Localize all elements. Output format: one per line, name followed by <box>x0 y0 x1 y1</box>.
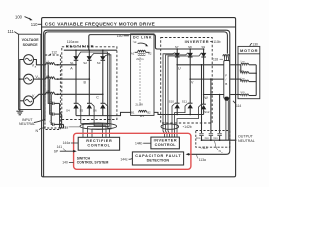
wire neutral ref top wrap W2 to feedback block <box>45 32 228 122</box>
label 113 <box>200 146 207 150</box>
svg-text:S11: S11 <box>182 99 187 103</box>
wire cap drop U to Cm1 <box>201 64 203 133</box>
label INPUT NEUTRAL <box>19 118 45 126</box>
gate wire S11 <box>175 104 188 138</box>
svg-text:RECTIFIER: RECTIFIER <box>66 44 94 49</box>
motor winding Lm2 <box>240 65 257 74</box>
feedback block F/B <box>224 61 230 99</box>
wire phase V inverter to feedback block <box>190 78 224 80</box>
svg-text:118: 118 <box>213 57 218 61</box>
svg-text:S12: S12 <box>204 110 210 114</box>
arrowhead into capacitor fault detection <box>186 153 190 156</box>
capacitor Cm2 <box>205 134 214 140</box>
wire cap drop V to Cm2 <box>210 78 212 133</box>
svg-text:113a: 113a <box>199 158 206 162</box>
label 140 <box>62 161 73 165</box>
thyristor S9 <box>201 45 206 95</box>
label 144c <box>120 157 132 161</box>
svg-text:S7: S7 <box>175 45 179 49</box>
label MOTOR <box>238 48 260 54</box>
svg-text:U: U <box>178 66 181 70</box>
svg-text:Lm: Lm <box>241 59 246 63</box>
motor star bus <box>255 65 257 96</box>
wire source-b right lead row b <box>34 78 46 80</box>
svg-text:SOURCE: SOURCE <box>23 43 39 47</box>
svg-text:INVERTER: INVERTER <box>154 139 177 143</box>
thyristor S8 <box>188 45 193 79</box>
svg-text:CONTROL: CONTROL <box>87 143 110 147</box>
ground input neutral <box>16 107 23 115</box>
node N neutral dashed bus <box>44 127 66 129</box>
node W <box>203 94 209 100</box>
inductor above feedback block <box>223 55 230 57</box>
setpoint input arrow SP <box>54 150 77 154</box>
wire Cf2 return drop <box>61 114 63 128</box>
outer enclosure CSC drive box 110 <box>42 18 236 177</box>
thyristor S6 <box>93 94 106 115</box>
junction dot row b <box>57 78 59 80</box>
thyristor S5 <box>80 79 93 116</box>
gate wire S4 <box>78 104 102 138</box>
svg-text:110b: 110b <box>213 40 220 44</box>
rectifier dashed box 110a <box>62 47 117 120</box>
title separator line <box>42 26 236 28</box>
svg-text:CONTROL SYSTEM: CONTROL SYSTEM <box>77 161 109 165</box>
voltage source box 111 <box>19 34 41 109</box>
inductor Lf phase a <box>46 60 55 65</box>
svg-text:110: 110 <box>31 22 38 27</box>
thyristor S4 <box>66 65 79 116</box>
AC source Vc <box>24 96 34 106</box>
output neutral bus wire <box>201 139 237 141</box>
gate wire S2 <box>88 53 110 137</box>
svg-text:DETECTION: DETECTION <box>147 159 170 163</box>
svg-text:130: 130 <box>252 43 258 47</box>
AC source Va <box>24 55 34 65</box>
wire neutral sense top wrap W1 to fault detector <box>44 30 230 177</box>
capacitor Cf3 <box>49 120 63 126</box>
svg-text:OUTPUT: OUTPUT <box>238 134 254 138</box>
gate wire S6 <box>105 104 110 138</box>
svg-text:INVERTER: INVERTER <box>185 39 209 44</box>
thyristor S12 <box>201 95 210 115</box>
feedback block bottom connector <box>225 97 229 101</box>
wire phase U feedback to motor <box>230 64 241 66</box>
svg-text:140: 140 <box>62 161 68 165</box>
motor winding Lm4 <box>241 90 257 96</box>
svg-text:MOTOR: MOTOR <box>240 48 258 53</box>
svg-text:2Ldiff: 2Ldiff <box>135 102 142 106</box>
svg-text:RECTIFIER: RECTIFIER <box>86 139 112 143</box>
wire row a to rectifier node A <box>55 64 76 66</box>
svg-text:111: 111 <box>8 29 15 34</box>
capacitor Cm1 <box>196 134 204 140</box>
svg-text:B2: B2 <box>147 110 151 114</box>
label idc with arrow <box>133 39 149 46</box>
label 111 <box>8 29 19 34</box>
svg-text:W3: W3 <box>140 114 145 118</box>
output capacitor dashed box 113 <box>196 131 230 148</box>
svg-text:VOLTAGE: VOLTAGE <box>22 38 40 42</box>
gate bundle ellipse 142a <box>80 123 117 129</box>
label 114 <box>233 101 241 108</box>
wire source-b left lead <box>20 78 24 80</box>
svg-text:S2: S2 <box>83 61 87 65</box>
svg-text:S4: S4 <box>66 108 70 112</box>
label 144b <box>135 141 151 145</box>
svg-text:Lm: Lm <box>241 90 246 94</box>
label 150 <box>117 34 129 38</box>
label 144a <box>63 141 79 145</box>
svg-text:144b: 144b <box>135 141 143 145</box>
thyristor S2 <box>83 50 92 79</box>
thyristor S1 <box>70 50 79 65</box>
gate wire S9 <box>168 53 202 137</box>
wire Cf1 return drop <box>59 103 61 128</box>
motor box 130 <box>238 46 260 98</box>
svg-text:CONTROL: CONTROL <box>155 143 177 147</box>
label 130 <box>250 43 258 47</box>
wire source-c right lead rising to row c <box>33 94 46 99</box>
svg-text:112: 112 <box>52 51 58 55</box>
node U <box>176 64 181 70</box>
svg-text:Cm: Cm <box>214 136 219 140</box>
junction dot left bus phase b <box>19 78 21 80</box>
wire dc positive riser to dc link <box>89 35 204 51</box>
thyristor S3 <box>97 50 106 94</box>
label 110a <box>67 40 79 44</box>
svg-text:NEUTRAL: NEUTRAL <box>238 139 255 143</box>
wire Cf3 return drop <box>63 124 65 128</box>
dc negative bus dc link to inverter <box>154 112 204 114</box>
junction dot row a <box>57 64 59 66</box>
label RECTIFIER <box>66 44 94 49</box>
node V <box>189 78 194 84</box>
wire row b to rectifier node B <box>55 78 90 80</box>
gate wire S5 <box>92 104 107 138</box>
svg-text:DC LINK: DC LINK <box>133 35 152 39</box>
capacitor Cf2 <box>49 109 61 115</box>
capacitor Cf1 <box>49 99 59 105</box>
thyristor S7 <box>175 45 180 65</box>
svg-text:A1: A1 <box>131 52 135 56</box>
node A <box>70 64 77 70</box>
dc positive bus rectifier <box>64 49 117 51</box>
svg-text:142b: 142b <box>184 125 192 129</box>
inductor 2Lcm winding A1-A2 <box>131 50 152 61</box>
svg-text:B: B <box>225 82 227 86</box>
label 142b <box>183 125 192 129</box>
gate wire S8 <box>166 53 189 137</box>
svg-text:NEUTRAL: NEUTRAL <box>19 122 35 126</box>
gate wire S12 <box>177 105 201 138</box>
motor winding Lm1 <box>241 59 257 64</box>
capacitor fault detection box 144c <box>132 152 183 165</box>
inductor Lf phase b <box>46 74 55 79</box>
dc negative bus rectifier to dc link <box>76 112 131 115</box>
wire source-c left lead <box>20 100 24 102</box>
svg-text:S1: S1 <box>70 61 74 65</box>
svg-text:S6: S6 <box>93 108 97 112</box>
label 110 <box>31 22 42 27</box>
wires into feedback block top <box>225 56 229 60</box>
label 113a <box>197 155 206 163</box>
inverter dashed box 110b <box>161 38 213 124</box>
junction dot row c <box>57 94 59 96</box>
input filter dashed box 112 <box>45 55 60 130</box>
AC source Vb <box>24 74 34 84</box>
wire row c to rectifier node C <box>55 93 103 95</box>
label N <box>36 128 45 133</box>
thyristor S10 <box>169 65 180 115</box>
svg-text:144a: 144a <box>63 141 71 145</box>
svg-text:100: 100 <box>15 14 23 19</box>
label 141 <box>57 145 66 151</box>
svg-text:W: W <box>204 96 208 100</box>
inductor Lf phase c <box>46 89 55 94</box>
wires feedback block to neutral <box>226 101 228 141</box>
coupling dashed line <box>139 57 141 105</box>
node C <box>96 94 103 100</box>
svg-text:S5: S5 <box>80 108 84 112</box>
svg-text:S9: S9 <box>201 45 205 49</box>
svg-text:Cm: Cm <box>196 136 201 140</box>
svg-text:C: C <box>96 96 99 100</box>
wire phase W inverter to feedback block <box>204 94 224 96</box>
label SWITCH CONTROL SYSTEM <box>77 156 109 164</box>
switch control system red box 140 <box>74 133 191 169</box>
motor winding Lm3 <box>241 76 257 81</box>
svg-text:114: 114 <box>236 104 241 108</box>
junction dot S3 top <box>102 49 104 51</box>
label 112 <box>49 51 58 56</box>
inverter control box 144b <box>151 137 180 149</box>
capacitor Cm3 <box>214 134 222 140</box>
node B <box>84 78 91 84</box>
thyristor S11 <box>182 79 193 115</box>
gate bundle ellipse 142b <box>161 124 179 129</box>
svg-text:CAPACITOR FAULT: CAPACITOR FAULT <box>135 154 181 158</box>
node No <box>215 141 224 154</box>
svg-text:142a: 142a <box>61 125 69 129</box>
svg-text:150: 150 <box>117 34 123 38</box>
svg-text:N: N <box>36 129 39 133</box>
label OUTPUT NEUTRAL <box>238 134 255 143</box>
svg-text:S3: S3 <box>97 61 101 65</box>
svg-text:144c: 144c <box>120 157 128 161</box>
gate wire S10 <box>172 104 175 138</box>
svg-text:S10: S10 <box>169 99 175 103</box>
svg-text:Cm: Cm <box>205 136 210 140</box>
wire cap drop W to Cm3 <box>219 94 221 133</box>
dc link box 150 <box>131 34 154 116</box>
label 118 <box>213 57 223 61</box>
svg-text:CSC VARIABLE FREQUENCY MOTOR D: CSC VARIABLE FREQUENCY MOTOR DRIVE <box>45 21 155 26</box>
junction dot S2 top <box>89 49 91 51</box>
wire drop phase b to Cf2 <box>50 79 53 114</box>
gate wire S1 <box>78 52 107 137</box>
svg-text:S8: S8 <box>188 45 192 49</box>
wire drop phase c to Cf3 <box>51 94 52 124</box>
wire drop phase a to Cf1 <box>48 65 52 104</box>
label INVERTER 110b <box>185 39 221 44</box>
wire phase W feedback to motor <box>230 94 241 96</box>
node 100 figure reference <box>15 14 33 20</box>
inductor 2Ldiff winding B1-B2 <box>131 110 151 118</box>
wire phase U inverter to feedback block <box>177 64 224 66</box>
wire source-a left lead <box>20 60 24 108</box>
svg-text:B1: B1 <box>131 110 135 114</box>
gate wire S7 <box>163 53 175 137</box>
rectifier control box 144a <box>78 137 119 150</box>
wire source-a right lead to row a <box>34 60 46 65</box>
wire phase V feedback to motor <box>230 78 241 80</box>
gate wire S3 <box>92 55 111 138</box>
svg-text:113: 113 <box>202 146 207 150</box>
label 142a <box>61 125 80 129</box>
junction dot S1 top <box>75 49 77 51</box>
svg-text:141: 141 <box>57 145 63 149</box>
